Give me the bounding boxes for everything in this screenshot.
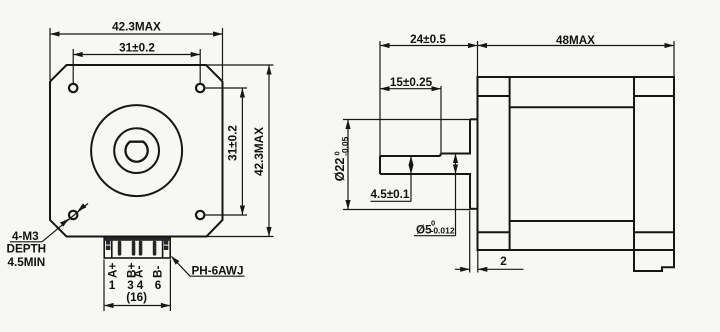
front endplate divider [509, 77, 511, 250]
mounting hole top-right [196, 84, 204, 92]
svg-text:-0.012: -0.012 [431, 226, 455, 236]
rear terminal housing [634, 250, 674, 271]
svg-text:-0.05: -0.05 [340, 136, 350, 156]
body shell top/bottom [510, 106, 634, 108]
svg-text:PH-6AWJ: PH-6AWJ [192, 265, 244, 278]
dimension 42.3MAX top [50, 28, 223, 80]
leader line to bottom-left hole [42, 204, 88, 242]
svg-text:DEPTH: DEPTH [7, 243, 47, 256]
dimension Ø22 [343, 120, 470, 210]
rear plate chamfer lines [634, 95, 674, 97]
dimension Ø5 [414, 154, 456, 236]
rear endplate divider [633, 77, 635, 250]
motor body front face (chamfered square) [50, 65, 223, 237]
dimension 4.5±0.1 [371, 156, 412, 201]
svg-text:24±0.5: 24±0.5 [410, 33, 446, 46]
svg-text:A+: A+ [107, 263, 120, 278]
dimension 31±0.2 top [73, 49, 200, 83]
pin 6 [153, 241, 157, 256]
svg-text:(16): (16) [126, 291, 147, 304]
front plate chamfer lines [478, 95, 510, 97]
svg-text:6: 6 [155, 279, 162, 292]
dimension 15±0.25 [380, 86, 441, 154]
svg-text:B-: B- [152, 266, 165, 278]
pin 1 [118, 241, 122, 256]
mounting hole bottom-left [69, 211, 77, 219]
pilot boss circle [91, 105, 182, 196]
mounting hole top-left [69, 84, 77, 92]
left tab contacts [106, 240, 110, 244]
svg-text:1: 1 [109, 279, 116, 292]
dimension (16) bottom [104, 260, 170, 312]
connector (front view) [104, 237, 170, 258]
mounting hole bottom-right [196, 211, 204, 219]
pilot boss [470, 118, 478, 120]
svg-text:15±0.25: 15±0.25 [390, 76, 433, 89]
svg-text:A-: A- [133, 266, 146, 278]
dimension 24±0.5 [380, 41, 478, 156]
right tab contacts [164, 240, 168, 244]
shaft circle with flat [126, 142, 148, 162]
svg-text:42.3MAX: 42.3MAX [253, 127, 266, 176]
connector housing dark strip [105, 238, 169, 241]
dimension 48MAX [478, 41, 675, 77]
svg-text:31±0.2: 31±0.2 [227, 125, 240, 161]
pin 4 [139, 241, 143, 256]
svg-text:48MAX: 48MAX [556, 34, 595, 47]
dimension 2 (boss) [455, 211, 524, 273]
pin 3 [132, 241, 136, 256]
raised hub circle [114, 128, 159, 173]
svg-text:Ø22: Ø22 [333, 158, 347, 182]
svg-text:4.5MIN: 4.5MIN [8, 256, 46, 269]
dimension 31±0.2 right vertical [206, 88, 248, 215]
svg-text:31±0.2: 31±0.2 [119, 42, 155, 55]
dimension 42.3MAX right vertical [206, 65, 274, 237]
svg-text:42.3MAX: 42.3MAX [112, 21, 161, 34]
shaft [380, 155, 441, 157]
svg-text:4.5±0.1: 4.5±0.1 [371, 188, 410, 201]
motor body side outline [380, 77, 674, 271]
svg-text:2: 2 [500, 255, 507, 268]
svg-text:4-M3: 4-M3 [12, 230, 39, 243]
